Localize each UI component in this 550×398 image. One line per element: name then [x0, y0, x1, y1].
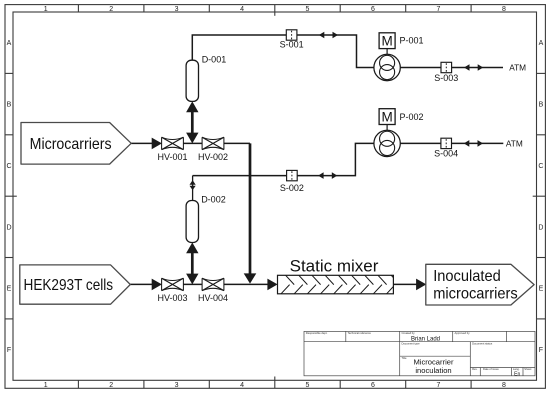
input flag Microcarriers: [21, 123, 131, 165]
svg-text:HEK293T cells: HEK293T cells: [24, 277, 114, 294]
svg-text:4: 4: [240, 6, 244, 13]
svg-text:M: M: [381, 109, 392, 124]
svg-text:6: 6: [371, 382, 375, 389]
connector S-001: [280, 30, 304, 50]
node ATM (vent 2): [506, 138, 523, 148]
node ATM (vent 1): [509, 63, 526, 73]
svg-text:7: 7: [436, 6, 440, 13]
svg-text:E: E: [7, 286, 12, 293]
svg-text:Date of issue: Date of issue: [483, 367, 499, 371]
bidirectional flow marks on vent line 2: [318, 172, 337, 179]
wire between HV-001 and HV-002: [184, 142, 203, 144]
bidirectional flow marks on vent line 1: [319, 32, 338, 39]
wire static mixer to Inoculated flag: [393, 283, 417, 285]
small bidirectional arrow D-002 to vent line 2: [190, 176, 196, 201]
svg-text:4: 4: [240, 382, 244, 389]
svg-text:C: C: [6, 163, 11, 170]
svg-text:inoculation: inoculation: [415, 366, 451, 375]
svg-text:5: 5: [306, 382, 310, 389]
svg-text:8: 8: [502, 382, 506, 389]
flow arrow into HV-003: [152, 279, 162, 291]
svg-text:HV-004: HV-004: [198, 293, 228, 303]
svg-text:ATM: ATM: [509, 63, 526, 73]
svg-text:E: E: [539, 286, 544, 293]
wire vent line 2: D-002 top to P-002: [193, 143, 374, 175]
svg-text:C: C: [538, 163, 543, 170]
title block: [304, 331, 535, 375]
wire P-002 to ATM: [400, 142, 503, 144]
bidirectional arrow D-001 to feed line: [186, 101, 198, 143]
svg-text:Brian Ladd: Brian Ladd: [411, 336, 440, 342]
svg-text:2: 2: [109, 6, 113, 13]
svg-text:D: D: [6, 224, 11, 231]
pump P-002 with motor: [374, 109, 424, 157]
connector S-002: [280, 170, 304, 193]
svg-text:A: A: [7, 40, 12, 47]
svg-text:F: F: [539, 347, 543, 354]
svg-text:Approved by: Approved by: [455, 331, 471, 335]
svg-text:D-001: D-001: [202, 55, 227, 65]
svg-text:P-002: P-002: [400, 112, 424, 122]
svg-text:P-001: P-001: [400, 36, 424, 46]
connector S-004: [434, 138, 458, 158]
valve HV-001: [157, 137, 187, 162]
svg-text:7: 7: [436, 382, 440, 389]
svg-text:En: En: [514, 371, 520, 377]
svg-text:Inoculated: Inoculated: [433, 268, 501, 285]
input flag HEK293T cells: [20, 265, 131, 304]
svg-text:HV-002: HV-002: [198, 152, 228, 162]
wire feed line 2: HEK293T flag to HV-003: [130, 283, 152, 285]
svg-text:Responsible dept.: Responsible dept.: [306, 331, 328, 335]
svg-text:ATM: ATM: [506, 138, 523, 148]
svg-text:5: 5: [306, 6, 310, 13]
bidirectional flow marks on P-002 ATM line: [464, 140, 483, 147]
svg-text:B: B: [7, 102, 12, 109]
valve HV-002: [198, 137, 228, 162]
svg-text:M: M: [381, 33, 392, 48]
svg-text:D-002: D-002: [201, 195, 226, 205]
column D-001: [186, 55, 226, 102]
svg-text:1: 1: [44, 6, 48, 13]
svg-text:S-001: S-001: [280, 40, 304, 50]
svg-text:Technical reference: Technical reference: [348, 331, 372, 335]
wire HV-002 to drain corner: [224, 142, 250, 144]
svg-text:Static mixer: Static mixer: [290, 257, 379, 276]
wire feed line 1: Microcarriers flag to HV-001: [131, 142, 152, 144]
svg-text:Microcarriers: Microcarriers: [30, 136, 112, 153]
svg-text:HV-003: HV-003: [157, 293, 187, 303]
wire vent line 1: D-001 top to P-001: [192, 35, 374, 68]
svg-text:6: 6: [371, 6, 375, 13]
svg-text:Title: Title: [402, 356, 407, 360]
svg-text:S-004: S-004: [434, 149, 458, 159]
pump P-001 with motor: [374, 33, 424, 81]
svg-text:HV-001: HV-001: [157, 152, 187, 162]
flow arrow into HV-001: [152, 138, 162, 150]
svg-text:S-002: S-002: [280, 183, 304, 193]
static mixer: [278, 257, 400, 294]
bidirectional flow marks on P-001 ATM line: [464, 64, 483, 71]
svg-text:3: 3: [175, 6, 179, 13]
svg-text:B: B: [539, 102, 544, 109]
svg-text:2: 2: [109, 382, 113, 389]
svg-text:S-003: S-003: [434, 73, 458, 83]
wire HV-004 to static mixer: [224, 283, 268, 285]
svg-text:3: 3: [175, 382, 179, 389]
svg-text:Created by: Created by: [402, 331, 416, 335]
svg-text:Document status: Document status: [472, 342, 493, 346]
output flag Inoculated microcarriers: [426, 264, 534, 305]
wire drain vertical to feed line 2: [244, 143, 257, 283]
bidirectional arrow D-002 to feed line 2: [186, 243, 198, 285]
valve HV-003: [157, 278, 187, 303]
wire P-001 to ATM: [400, 67, 503, 69]
svg-text:A: A: [539, 40, 544, 47]
svg-text:Sheet: Sheet: [524, 367, 531, 371]
flow arrow into Inoculated flag: [416, 279, 426, 291]
svg-text:Rev.: Rev.: [472, 367, 478, 371]
svg-text:D: D: [538, 224, 543, 231]
valve HV-004: [198, 278, 228, 303]
column D-002: [186, 195, 226, 243]
svg-text:1: 1: [44, 382, 48, 389]
svg-text:F: F: [7, 347, 11, 354]
svg-text:microcarriers: microcarriers: [433, 285, 518, 302]
flow arrow into static mixer: [267, 279, 277, 291]
connector S-003: [434, 62, 458, 83]
svg-text:8: 8: [502, 6, 506, 13]
wire between HV-003 and HV-004: [184, 283, 203, 285]
